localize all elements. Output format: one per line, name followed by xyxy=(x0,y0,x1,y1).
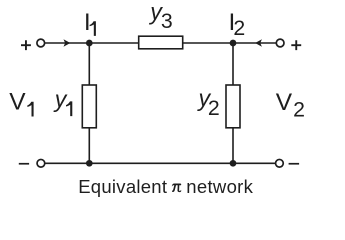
plus sign top-left xyxy=(21,40,31,50)
caption pi symbol xyxy=(172,184,182,193)
node I1 junction dot top-left xyxy=(86,40,93,47)
resistor y3 xyxy=(139,36,183,49)
svg-text:y: y xyxy=(53,86,68,112)
node I2 junction dot top-right xyxy=(230,40,237,47)
svg-text:2: 2 xyxy=(293,97,305,121)
wire left branch upper xyxy=(88,43,90,86)
resistor y1 xyxy=(82,85,96,128)
minus sign bottom-left xyxy=(19,163,29,165)
arrow I1 current direction xyxy=(64,39,71,47)
resistor y2 xyxy=(226,85,240,128)
arrow I2 current direction xyxy=(255,39,262,47)
terminal circle top-left xyxy=(37,39,45,47)
wire right branch lower xyxy=(232,127,234,163)
svg-text:V: V xyxy=(276,89,293,116)
svg-text:I: I xyxy=(84,9,91,36)
plus sign top-right xyxy=(291,40,301,50)
wire top rail right segment xyxy=(183,42,277,44)
terminal circle top-right xyxy=(276,39,284,47)
wire right branch upper xyxy=(232,43,234,86)
svg-text:Equivalent: Equivalent xyxy=(78,176,167,197)
junction dot bottom-right xyxy=(230,160,237,167)
svg-text:2: 2 xyxy=(208,96,220,120)
wire left branch lower xyxy=(88,127,90,163)
terminal circle bottom-left xyxy=(37,159,45,167)
svg-text:2: 2 xyxy=(233,16,245,40)
svg-text:3: 3 xyxy=(161,9,173,33)
wire top rail left segment xyxy=(45,42,139,44)
wire bottom rail xyxy=(45,162,276,164)
svg-text:network: network xyxy=(186,176,253,197)
minus sign bottom-right xyxy=(289,163,300,165)
terminal circle bottom-right xyxy=(276,159,284,167)
junction dot bottom-left xyxy=(86,160,93,167)
svg-text:V: V xyxy=(9,89,26,116)
